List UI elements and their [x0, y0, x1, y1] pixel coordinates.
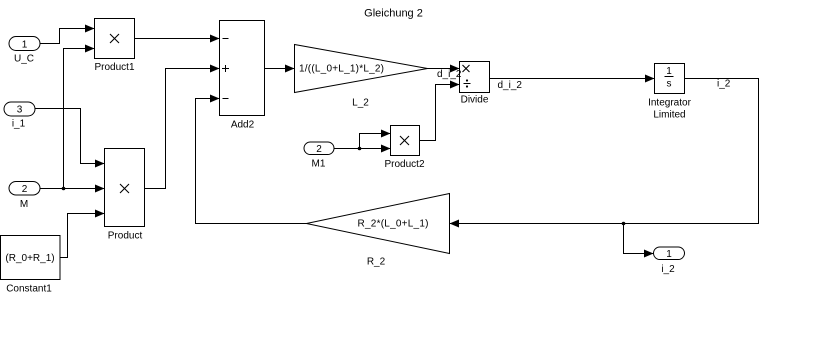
svg-text:Add2: Add2 [231, 120, 255, 131]
svg-text:Constant1: Constant1 [6, 284, 52, 295]
svg-text:1/((L_0+L_1)*L_2): 1/((L_0+L_1)*L_2) [299, 64, 384, 75]
inport 2 M1 [304, 142, 334, 170]
node M1 junction [358, 147, 362, 151]
wire L_2 out to Divide in1 [428, 68, 460, 70]
wire U_C to Product1 in1 [40, 29, 95, 44]
wire i_1 to Product in1 [35, 109, 105, 164]
constant Constant1 (R_0+R_1) [1, 236, 61, 295]
svg-text:i_2: i_2 [661, 264, 675, 275]
svg-text:d_i_2: d_i_2 [437, 69, 462, 80]
svg-text:L_2: L_2 [352, 98, 369, 109]
wire M branch to Product1 in2 [64, 49, 95, 189]
wire Constant1 to Product in3 [60, 214, 105, 258]
wire Product out to Add2 in2 [145, 69, 220, 189]
inport 3 i_1 [4, 102, 35, 130]
gain R_2 triangle [307, 194, 450, 268]
svg-text:1: 1 [22, 40, 28, 51]
block Product1 [94, 19, 134, 74]
svg-text:Product1: Product1 [94, 62, 134, 73]
wire Divide out to Integrator [490, 78, 655, 80]
svg-text:Divide: Divide [461, 95, 489, 106]
gain L_2 triangle [295, 45, 428, 109]
svg-text:R_2: R_2 [367, 257, 386, 268]
svg-text:1: 1 [666, 66, 672, 77]
node M junction [62, 187, 66, 191]
block Product [105, 149, 145, 242]
svg-text:U_C: U_C [14, 54, 34, 65]
wire junction to outport i_2 [624, 224, 654, 254]
wire M1 branch to Product2 in1 [360, 134, 391, 149]
svg-text:Integrator: Integrator [648, 98, 691, 109]
wire Integrator out feedback to R_2 [450, 79, 759, 224]
svg-text:(R_0+R_1): (R_0+R_1) [5, 253, 54, 264]
svg-text:Product: Product [108, 231, 143, 242]
svg-text:s: s [667, 79, 672, 90]
node feedback junction [622, 222, 626, 226]
block Add2 [220, 21, 265, 131]
wire Product1 out to Add2 in1 [135, 38, 220, 40]
wire M to Product in2 [40, 188, 105, 190]
svg-text:Limited: Limited [653, 110, 685, 121]
svg-text:M: M [20, 199, 28, 210]
svg-text:d_i_2: d_i_2 [498, 80, 523, 91]
block Product2 [384, 126, 424, 171]
svg-text:1: 1 [666, 249, 672, 260]
svg-text:Product2: Product2 [384, 159, 424, 170]
block Integrator Limited [648, 64, 691, 121]
wire M1 to Product2 in2 [334, 148, 391, 150]
outport 1 i_2 [654, 247, 685, 275]
svg-text:i_1: i_1 [12, 119, 26, 130]
svg-text:2: 2 [22, 184, 28, 195]
svg-text:M1: M1 [312, 159, 326, 170]
svg-text:i_2: i_2 [717, 79, 731, 90]
wire R_2 out to Add2 in3 [196, 99, 307, 224]
inport 2 M [9, 182, 40, 211]
block Divide [460, 62, 490, 106]
svg-text:3: 3 [17, 105, 23, 116]
svg-text:2: 2 [316, 144, 322, 155]
wire Product2 out to Divide in2 [420, 85, 460, 141]
inport 1 U_C [9, 37, 40, 65]
wire Add2 out to L_2 [265, 68, 295, 70]
svg-text:Gleichung 2: Gleichung 2 [364, 8, 423, 20]
svg-text:R_2*(L_0+L_1): R_2*(L_0+L_1) [358, 219, 429, 230]
